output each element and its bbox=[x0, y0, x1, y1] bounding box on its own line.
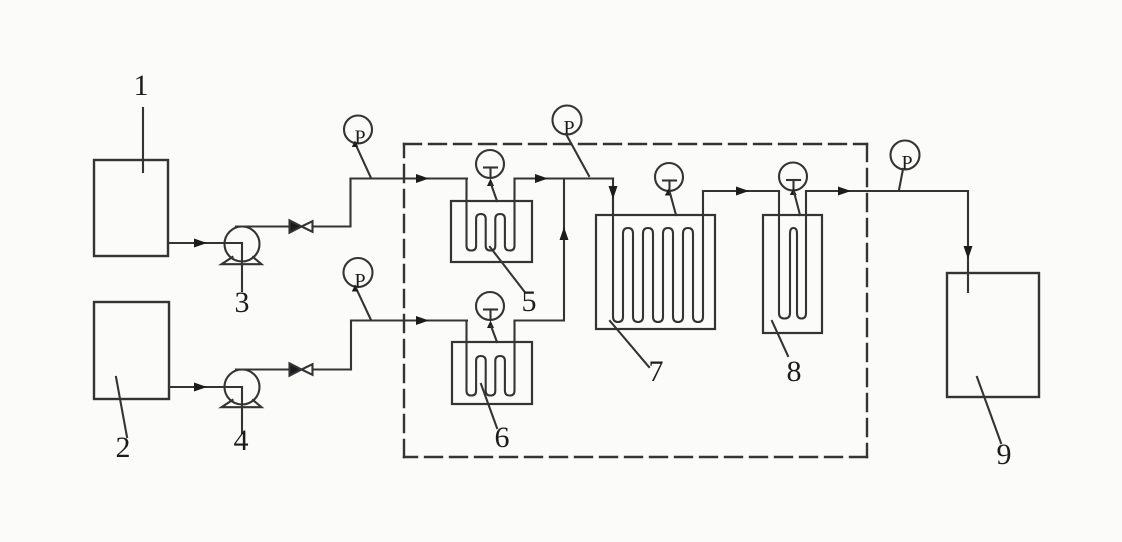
temperature gauge T5 bbox=[476, 150, 504, 178]
arrow unit7 to unit8 bbox=[736, 187, 749, 196]
label 9 leader bbox=[977, 377, 1001, 443]
arrow up on riser bbox=[560, 227, 569, 240]
svg-text:4: 4 bbox=[234, 424, 249, 457]
tank 9 bbox=[947, 273, 1039, 397]
tank 2 outlet wire to pump4 bbox=[169, 386, 242, 388]
heat exchanger 6 coil bbox=[467, 321, 515, 396]
label 2 leader bbox=[116, 377, 127, 437]
temperature gauge T8 bbox=[779, 163, 807, 191]
dashed battery-limit box right edge bbox=[866, 144, 868, 457]
dashed battery-limit box left edge bbox=[403, 144, 405, 457]
valve V2 bbox=[290, 363, 302, 375]
temperature gauge T7 bbox=[655, 163, 683, 191]
arrow on tank1 outlet bbox=[194, 239, 207, 248]
arrow after unit8 bbox=[838, 187, 851, 196]
dashed battery-limit box bottom edge bbox=[404, 456, 867, 458]
temperature gauge T6 bbox=[476, 292, 504, 320]
T5 leader bbox=[491, 184, 497, 201]
svg-text:6: 6 bbox=[495, 421, 510, 454]
wire stub inside tank9 bbox=[967, 273, 969, 292]
arrow before junction bbox=[535, 174, 548, 183]
wire unit5 to junction bbox=[515, 177, 613, 179]
wire riser2 to unit6 bbox=[351, 319, 467, 321]
label 8 leader bbox=[772, 321, 788, 356]
pump 3 bbox=[225, 227, 260, 262]
arrow down into unit7 bbox=[609, 186, 618, 199]
T6 leader bbox=[491, 326, 497, 342]
heat exchanger 7 box bbox=[596, 215, 715, 329]
T8 leader bbox=[794, 192, 800, 215]
pressure gauge P3 bbox=[344, 258, 373, 287]
wire unit7 to unit8 bbox=[703, 190, 779, 192]
pump 4 bbox=[225, 370, 260, 405]
wire junction down into unit7 bbox=[612, 179, 614, 216]
valve V1 bbox=[290, 220, 302, 232]
label 5 leader bbox=[490, 247, 524, 291]
tank 1 bbox=[94, 160, 168, 256]
heat exchanger 5 coil bbox=[467, 179, 515, 251]
heat exchanger 7 coil bbox=[613, 191, 703, 322]
arrow down into tank9 bbox=[964, 246, 973, 259]
svg-text:5: 5 bbox=[522, 285, 537, 318]
svg-text:8: 8 bbox=[787, 355, 802, 388]
P1 leader bbox=[355, 143, 371, 178]
label 6 leader bbox=[481, 384, 497, 428]
arrow on line to unit5 bbox=[416, 174, 429, 183]
wire unit6 to riser up bbox=[515, 179, 564, 321]
wire valve1 to riser bbox=[313, 179, 351, 227]
arrow on tank2 outlet bbox=[194, 383, 207, 392]
P4 leader bbox=[899, 169, 903, 190]
svg-text:7: 7 bbox=[649, 355, 664, 388]
dashed battery-limit box top edge bbox=[404, 143, 867, 145]
pressure gauge P1 bbox=[344, 116, 372, 144]
pump 4 base bbox=[222, 400, 262, 407]
svg-text:1: 1 bbox=[134, 69, 149, 102]
pump 3 base bbox=[222, 257, 262, 264]
P3 leader bbox=[355, 286, 371, 320]
label 4 leader bbox=[241, 387, 243, 433]
svg-text:3: 3 bbox=[235, 286, 250, 319]
arrow on line to unit6 bbox=[416, 316, 429, 325]
label 3 leader bbox=[241, 244, 243, 291]
heat exchanger 6 box bbox=[452, 342, 532, 404]
T7 leader bbox=[670, 193, 676, 215]
wire pump4 outlet bbox=[236, 368, 289, 370]
label 7 leader bbox=[610, 321, 649, 367]
heat exchanger 5 box bbox=[451, 201, 532, 262]
wire tank1 to pump3 bbox=[168, 242, 242, 244]
wire unit8 to tank9 bbox=[806, 191, 968, 273]
svg-text:9: 9 bbox=[997, 438, 1012, 471]
pressure gauge P4 bbox=[891, 141, 920, 170]
wire valve2 to riser2 bbox=[313, 321, 352, 370]
wire riser to unit5 bbox=[351, 177, 468, 179]
heat exchanger 8 coil bbox=[779, 191, 806, 319]
svg-text:P: P bbox=[563, 117, 574, 139]
pressure gauge P2 bbox=[553, 106, 582, 135]
heat exchanger 8 box bbox=[763, 215, 822, 333]
svg-text:2: 2 bbox=[116, 431, 131, 464]
tank 2 bbox=[94, 302, 169, 399]
label 1 leader bbox=[142, 108, 144, 172]
P2 leader bbox=[566, 134, 589, 176]
wire pump3 outlet bbox=[236, 225, 289, 227]
